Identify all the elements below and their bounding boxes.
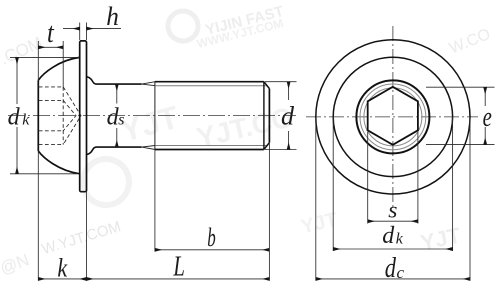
svg-text:c: c [397, 263, 405, 282]
svg-text:s: s [118, 111, 124, 128]
t dimension [38, 46, 63, 48]
dc dimension [316, 278, 470, 280]
socket entry circle [356, 80, 429, 153]
horizontal centerline [306, 116, 478, 118]
inner thin circle 1 [360, 84, 426, 150]
svg-text:d: d [382, 223, 395, 249]
svg-text:d: d [8, 105, 21, 131]
svg-text:k: k [57, 253, 67, 282]
vertical centerline [392, 26, 394, 208]
head face [37, 80, 39, 151]
chamfer edge line [263, 82, 265, 150]
b dimension [155, 249, 270, 251]
watermark mid swirl [78, 154, 135, 211]
socket bottom [62, 87, 64, 145]
svg-text:d: d [385, 253, 397, 284]
L dimension [87, 278, 270, 280]
svg-text:YJT: YJT [418, 222, 463, 255]
svg-text:t: t [47, 17, 55, 49]
L extension right [268, 143, 270, 281]
k/L shared extension [86, 192, 88, 281]
k dimension [38, 278, 86, 280]
thread minor bottom (thin) [155, 145, 267, 147]
dk dimension right view [333, 248, 452, 250]
socket cone inner [63, 100, 76, 130]
svg-text:b: b [207, 222, 216, 252]
e extension lines [426, 87, 495, 144]
hex socket hidden lines [39, 87, 81, 145]
fillet bottom [87, 147, 142, 155]
fillet top [87, 77, 142, 85]
svg-text:L: L [173, 252, 185, 283]
svg-text:d: d [281, 102, 295, 131]
thread major top [155, 81, 264, 83]
s dimension [368, 220, 418, 222]
thread runout taper bottom [142, 146, 156, 150]
end face [268, 89, 270, 143]
svg-text:W.CO: W.CO [447, 26, 493, 58]
watermark top swirl logo [164, 7, 201, 44]
inner thin circle 2 [364, 88, 422, 146]
hex socket [368, 87, 418, 145]
svg-text:k: k [22, 111, 30, 128]
socket cone outer [63, 87, 81, 145]
dk extension top [10, 56, 79, 58]
h dimension [63, 28, 80, 30]
head dome top [38, 57, 79, 80]
flange washer [80, 41, 87, 192]
h extension lines [80, 23, 87, 41]
centerline axis [8, 115, 296, 117]
ds dimension arrows [116, 84, 118, 103]
head circle dk [333, 57, 452, 176]
d dimension arrows [288, 82, 290, 100]
dk dimension line [16, 57, 18, 104]
dk extension bottom [10, 173, 77, 175]
k extension left [37, 151, 39, 281]
thread start line [154, 82, 156, 150]
svg-text:e: e [483, 101, 492, 133]
head dome bottom [38, 151, 79, 174]
svg-text:k: k [396, 230, 404, 247]
chamfer diagonals [264, 82, 270, 150]
d extension lines [265, 82, 297, 150]
thread minor top (thin) [155, 85, 267, 87]
svg-text:W.YJT.COM: W.YJT.COM [40, 218, 123, 258]
dc extension lines [316, 117, 470, 281]
dk extension lines right view [333, 117, 452, 251]
b extension line [154, 150, 156, 252]
thread major bottom [155, 149, 264, 151]
t extension lines [38, 41, 63, 87]
svg-text:h: h [106, 2, 119, 31]
e dimension [484, 87, 486, 106]
svg-text:YJT: YJT [116, 99, 182, 149]
s extension lines [368, 132, 418, 224]
svg-text:@N: @N [0, 250, 32, 278]
thread runout taper top [142, 82, 156, 86]
svg-text:s: s [388, 198, 397, 224]
flange circle dc [316, 40, 470, 194]
